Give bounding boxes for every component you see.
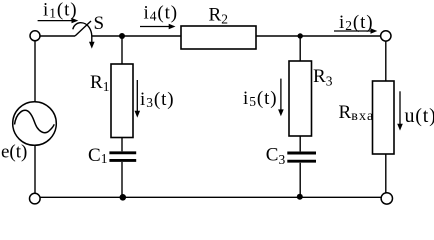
svg-text:u(t): u(t) [405, 105, 434, 127]
svg-text:e(t): e(t) [1, 142, 27, 163]
svg-text:S: S [94, 13, 105, 34]
svg-text:i4(t): i4(t) [144, 3, 178, 24]
svg-text:i2(t): i2(t) [339, 12, 373, 33]
svg-text:i1(t): i1(t) [43, 0, 77, 21]
svg-text:i3(t): i3(t) [140, 89, 174, 110]
svg-text:i5(t): i5(t) [243, 88, 277, 109]
